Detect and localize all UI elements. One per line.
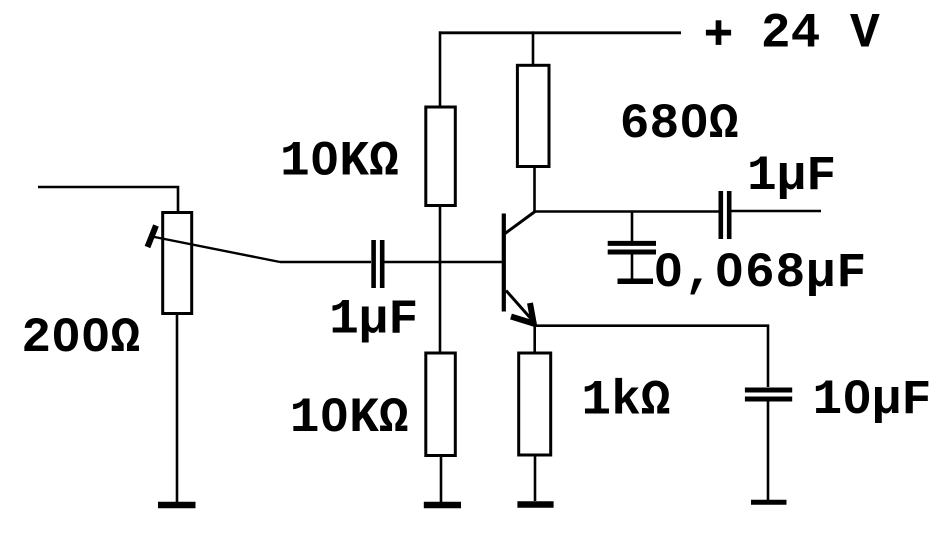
wire rail to R4 bbox=[532, 31, 535, 65]
transistor Q1 collector lead bbox=[505, 212, 535, 234]
wire junction to C2 bbox=[631, 212, 634, 242]
resistor R2 10KΩ body bbox=[426, 107, 456, 206]
svg-text:200Ω: 200Ω bbox=[21, 310, 140, 366]
resistor R3 10KΩ body bbox=[426, 353, 456, 456]
resistor R4 680Ω body bbox=[517, 65, 549, 166]
wire C1 to base bbox=[385, 261, 503, 264]
capacitor C4 10µF plates bbox=[745, 390, 792, 399]
svg-text:10µF: 10µF bbox=[813, 372, 932, 428]
svg-text:1kΩ: 1kΩ bbox=[581, 372, 670, 428]
wire R3 to ground bbox=[440, 456, 443, 503]
potentiometer R1 body bbox=[163, 213, 192, 314]
svg-text:1µF: 1µF bbox=[747, 148, 836, 204]
power rail +24V bbox=[439, 31, 681, 34]
svg-text:10KΩ: 10KΩ bbox=[290, 390, 409, 446]
potentiometer R1 wiper bbox=[148, 226, 281, 263]
ground R3 bbox=[424, 502, 461, 509]
wire wiper to C1 bbox=[280, 261, 371, 264]
svg-text:680Ω: 680Ω bbox=[620, 96, 739, 152]
svg-text:10KΩ: 10KΩ bbox=[280, 133, 399, 189]
ground R5 bbox=[517, 501, 553, 508]
wire emitter to C4 bbox=[535, 326, 768, 387]
wire C2 to ground bbox=[631, 254, 634, 279]
ground C2 bbox=[618, 279, 654, 285]
capacitor C1 1µF plates bbox=[374, 240, 383, 288]
svg-text:0,068µF: 0,068µF bbox=[654, 245, 868, 301]
wire rail to R2 bbox=[439, 31, 442, 107]
capacitor C2 0,068µF plates bbox=[608, 243, 656, 252]
wire collector node to C3 bbox=[533, 210, 718, 213]
capacitor C3 1µF plates bbox=[721, 191, 729, 239]
wire R2 to R3 bbox=[439, 206, 442, 354]
label + 24 V bbox=[706, 6, 880, 62]
transistor Q1 emitter arrow bbox=[511, 303, 535, 325]
label R2 10KΩ bbox=[280, 133, 399, 189]
ground C4 bbox=[751, 500, 787, 505]
wire R4 to collector node bbox=[533, 167, 536, 212]
resistor R5 1kΩ body bbox=[519, 353, 551, 455]
svg-text:1µF: 1µF bbox=[329, 292, 418, 348]
svg-text:24 V: 24 V bbox=[761, 6, 880, 62]
transistor Q1 emitter lead bbox=[506, 291, 533, 322]
label C4 10µF bbox=[813, 372, 932, 428]
wire R1 to ground bbox=[176, 314, 179, 503]
wire C4 to ground bbox=[767, 402, 770, 501]
wire C3 to output bbox=[732, 210, 822, 213]
label R3 10KΩ bbox=[290, 390, 409, 446]
ground R1 bbox=[158, 502, 196, 509]
wire input left bbox=[38, 187, 178, 212]
transistor Q1 base bar bbox=[502, 214, 506, 312]
label R4 680Ω bbox=[620, 96, 739, 152]
wire emitter node to R5 bbox=[533, 322, 536, 353]
label C2 0,068µF bbox=[654, 245, 868, 301]
label 200Ω bbox=[21, 310, 140, 366]
wire R5 to ground bbox=[534, 455, 537, 501]
